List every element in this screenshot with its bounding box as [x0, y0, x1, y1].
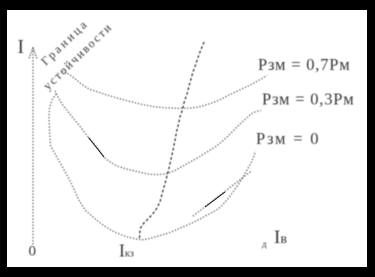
curve R=0.3 middle: [55, 91, 261, 175]
curve R=0.7 top: [62, 71, 267, 108]
svg-text:Рзм = 0,7Рм: Рзм = 0,7Рм: [258, 55, 351, 74]
svg-text:Рзм = 0: Рзм = 0: [256, 129, 320, 148]
solid stretch tangent line: [205, 192, 225, 207]
y-axis arrowhead: [29, 48, 37, 59]
curve R=0 deep: [49, 94, 256, 240]
tangent line at stability point: [193, 171, 252, 217]
svg-text:0: 0: [29, 244, 37, 260]
svg-text:I: I: [18, 37, 25, 58]
svg-text:д: д: [262, 239, 267, 249]
y-axis: [32, 48, 34, 246]
svg-text:Iв: Iв: [274, 227, 287, 248]
stability boundary diagonal: [140, 42, 205, 240]
solid stretch middle curve: [89, 138, 105, 158]
svg-text:Iкз: Iкз: [119, 241, 134, 261]
svg-text:Рзм = 0,3Рм: Рзм = 0,3Рм: [262, 90, 355, 109]
